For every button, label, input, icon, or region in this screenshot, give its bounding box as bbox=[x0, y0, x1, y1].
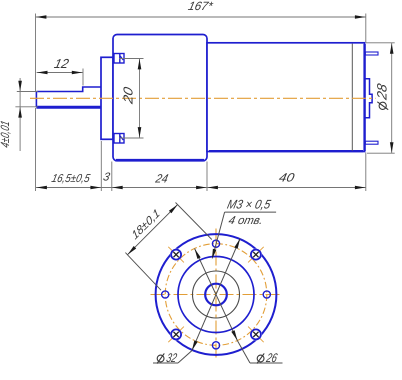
svg-text:M3 × 0,5: M3 × 0,5 bbox=[226, 198, 273, 212]
svg-text:167*: 167* bbox=[187, 0, 215, 13]
svg-text:4±0,01: 4±0,01 bbox=[0, 119, 12, 149]
svg-text:4 отв.: 4 отв. bbox=[227, 214, 264, 227]
svg-text:16,5±0,5: 16,5±0,5 bbox=[50, 172, 91, 185]
